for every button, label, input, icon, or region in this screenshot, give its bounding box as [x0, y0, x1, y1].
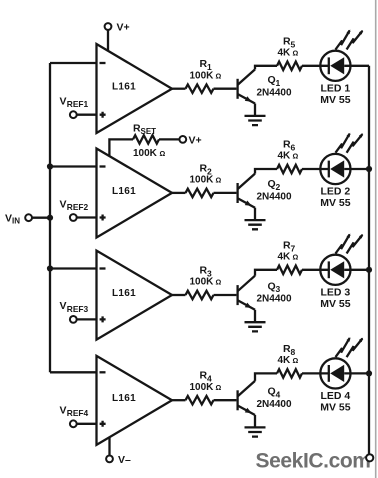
svg-text:3: 3 — [276, 284, 281, 294]
op-amp U4 L161 — [97, 356, 173, 445]
svg-text:Q: Q — [268, 386, 276, 398]
power V- terminal (bottom) — [106, 456, 113, 463]
pin U2 non-inverting input + — [100, 215, 106, 221]
wire U3 output to R3 — [172, 294, 186, 296]
resistor R3 100K — [186, 291, 214, 299]
svg-text:Ω: Ω — [216, 278, 222, 287]
wire LED supply rail (vertical, right) — [368, 66, 370, 454]
wire Q2 collector to R6 — [255, 169, 277, 174]
svg-text:REF4: REF4 — [67, 408, 89, 418]
junction dot bus/U3 — [47, 265, 53, 271]
wire U1 output to R1 — [172, 88, 186, 90]
wire Q4 collector to R8 — [255, 373, 277, 381]
svg-text:V+: V+ — [117, 22, 130, 34]
wire VREF3 to U3 — [77, 318, 98, 320]
resistor R5 4K — [277, 62, 302, 70]
wire Q1 emitter to ground — [254, 104, 256, 116]
pin U1 inverting input - — [100, 62, 106, 64]
junction dot rail/LED3 — [366, 267, 372, 273]
wire Q1 collector to R5 — [255, 66, 277, 70]
resistor R1 100K — [186, 85, 214, 93]
svg-text:LED 3: LED 3 — [321, 286, 351, 298]
svg-text:MV 55: MV 55 — [320, 94, 351, 106]
svg-text:MV 55: MV 55 — [320, 402, 351, 414]
svg-text:LED 1: LED 1 — [321, 82, 351, 94]
svg-text:Q: Q — [268, 280, 276, 292]
wire VIN terminal to bus — [32, 217, 50, 219]
wire U2 top to RSET — [109, 139, 133, 156]
svg-text:2N4400: 2N4400 — [257, 87, 292, 98]
resistor R6 4K — [277, 165, 302, 173]
svg-text:IN: IN — [12, 217, 20, 226]
wire bus to U1 inverting input — [50, 62, 98, 64]
wire LED 2 to rail — [351, 168, 370, 170]
svg-text:L161: L161 — [112, 82, 136, 93]
terminal VREF4 — [70, 420, 77, 427]
svg-text:SET: SET — [141, 127, 157, 136]
svg-text:4: 4 — [276, 389, 281, 399]
transistor Q3 2N4400 — [236, 285, 238, 305]
pin U4 inverting input - — [100, 371, 106, 373]
terminal rail bottom — [366, 454, 373, 461]
junction dot rail/LED2 — [366, 166, 372, 172]
resistor R4 100K — [186, 396, 214, 404]
pin U3 non-inverting input + — [100, 316, 106, 322]
wire R2 to Q2 base — [214, 192, 237, 194]
svg-text:V: V — [60, 198, 67, 210]
svg-text:Q: Q — [268, 74, 276, 86]
svg-text:2N4400: 2N4400 — [257, 294, 292, 305]
svg-text:V+: V+ — [189, 134, 202, 146]
wire LED 4 to rail — [351, 372, 370, 374]
svg-text:V–: V– — [118, 454, 131, 466]
svg-text:Ω: Ω — [216, 71, 222, 80]
svg-text:100K: 100K — [190, 175, 215, 186]
svg-text:Q: Q — [268, 178, 276, 190]
svg-text:REF1: REF1 — [67, 99, 89, 109]
ground Q3 — [245, 322, 266, 331]
wire Q4 emitter to ground — [254, 415, 256, 427]
svg-text:Ω: Ω — [216, 176, 222, 185]
wire R8 to LED 4 — [302, 372, 321, 374]
svg-text:4K: 4K — [278, 355, 292, 366]
wire Q3 emitter to ground — [254, 310, 256, 322]
LED 1 MV55 — [320, 30, 363, 81]
wire R7 to LED 3 — [302, 269, 321, 271]
power V+ terminal (RSET) — [179, 136, 186, 143]
wire V+ to U1 — [107, 30, 109, 52]
svg-text:100K: 100K — [190, 382, 215, 393]
wire U4 to V- — [108, 438, 110, 456]
svg-text:Ω: Ω — [293, 252, 299, 261]
power V+ terminal (top) — [105, 23, 112, 30]
pin U3 inverting input - — [100, 267, 106, 269]
svg-text:REF2: REF2 — [67, 202, 89, 212]
wire bus to U4 inverting input — [50, 371, 98, 373]
pin U2 inverting input - — [100, 165, 106, 167]
wire VREF2 to U2 — [77, 216, 98, 218]
wire LED 1 to rail — [351, 65, 370, 67]
LED 3 MV55 — [320, 234, 363, 285]
svg-text:L161: L161 — [112, 288, 136, 299]
transistor Q1 2N4400 — [236, 79, 238, 99]
svg-text:REF3: REF3 — [67, 304, 89, 314]
LED 2 MV55 — [320, 133, 363, 184]
svg-text:V: V — [5, 212, 12, 224]
ground Q1 — [245, 116, 266, 125]
svg-text:SeekIC.com: SeekIC.com — [256, 450, 371, 473]
svg-text:100K: 100K — [190, 277, 215, 288]
page border line (right) — [375, 0, 377, 478]
svg-text:100K: 100K — [190, 70, 215, 81]
wire Q3 collector to R7 — [255, 270, 277, 276]
junction dot bus/VIN — [47, 215, 53, 221]
ground Q4 — [245, 427, 266, 436]
svg-text:Ω: Ω — [216, 383, 222, 392]
svg-text:Ω: Ω — [293, 356, 299, 365]
svg-text:V: V — [60, 300, 67, 312]
svg-text:4K: 4K — [278, 47, 292, 58]
svg-text:V: V — [60, 96, 67, 108]
svg-text:Ω: Ω — [293, 48, 299, 57]
wire R6 to LED 2 — [302, 168, 321, 170]
wire RSET to V+ terminal — [159, 138, 179, 140]
wire VREF4 to U4 — [77, 423, 98, 425]
svg-text:LED 2: LED 2 — [321, 186, 351, 198]
pin U1 non-inverting input + — [100, 112, 106, 118]
LED 4 MV55 — [320, 337, 363, 388]
junction dot rail/LED4 — [366, 370, 372, 376]
wire VREF1 to U1 — [77, 114, 98, 116]
wire R5 to LED 1 — [302, 65, 321, 67]
transistor Q2 2N4400 — [236, 183, 238, 203]
wire R1 to Q1 base — [214, 88, 237, 90]
svg-text:MV 55: MV 55 — [320, 298, 351, 310]
svg-text:L161: L161 — [112, 393, 136, 404]
svg-text:2N4400: 2N4400 — [257, 399, 292, 410]
terminal VREF1 — [70, 111, 77, 118]
resistor R8 4K — [277, 369, 302, 377]
op-amp U3 L161 — [97, 251, 173, 340]
wire VIN input bus (vertical) — [49, 63, 51, 372]
svg-text:2: 2 — [276, 182, 281, 192]
svg-text:100K: 100K — [133, 148, 158, 159]
wire U4 output to R4 — [172, 399, 186, 401]
op-amp U1 L161 — [97, 44, 173, 133]
wire U2 output to R2 — [172, 192, 186, 194]
svg-text:MV 55: MV 55 — [320, 197, 351, 209]
pin U4 non-inverting input + — [100, 421, 106, 427]
op-amp U2 L161 — [97, 149, 173, 238]
svg-text:4K: 4K — [278, 251, 292, 262]
transistor Q4 2N4400 — [236, 390, 238, 410]
wire bus to U3 inverting input — [50, 267, 98, 269]
wire Q2 emitter to ground — [254, 208, 256, 220]
svg-text:L161: L161 — [112, 186, 136, 197]
resistor R7 4K — [277, 266, 302, 274]
svg-text:4K: 4K — [278, 151, 292, 162]
svg-text:LED 4: LED 4 — [321, 390, 351, 402]
terminal VIN — [25, 214, 32, 221]
svg-text:V: V — [60, 405, 67, 417]
svg-text:1: 1 — [276, 78, 281, 88]
svg-text:2N4400: 2N4400 — [257, 192, 292, 203]
svg-text:Ω: Ω — [293, 152, 299, 161]
resistor RSET 100K — [133, 135, 159, 143]
wire LED 3 to rail — [351, 269, 370, 271]
junction dot bus/U2 — [47, 163, 53, 169]
resistor R2 100K — [186, 189, 214, 197]
svg-text:Ω: Ω — [160, 149, 166, 158]
ground Q2 — [245, 220, 266, 229]
wire R3 to Q3 base — [214, 294, 237, 296]
wire R4 to Q4 base — [214, 399, 237, 401]
terminal VREF3 — [70, 316, 77, 323]
terminal VREF2 — [70, 214, 77, 221]
wire bus to U2 inverting input — [50, 165, 98, 167]
